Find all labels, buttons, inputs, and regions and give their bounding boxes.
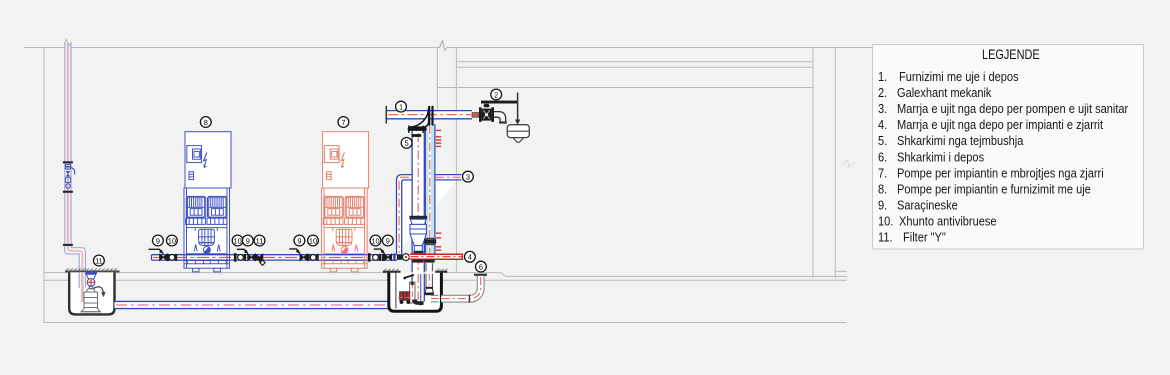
svg-text:8: 8 <box>204 118 208 127</box>
svg-text:Filter "Y": Filter "Y" <box>903 230 946 245</box>
flange on cyan pipe <box>424 238 436 244</box>
svg-text:Marrja e ujit nga depo per pom: Marrja e ujit nga depo per pompen e ujit… <box>897 101 1128 116</box>
left wall <box>43 48 45 323</box>
drain pipe from pit to outlet 6 <box>436 274 487 303</box>
flange pair on pipe 1 <box>428 106 434 126</box>
Y filter 11 (right of pump 8) <box>256 254 266 265</box>
svg-text:Marrja e ujit nga depo per imp: Marrja e ujit nga depo per impianti e zj… <box>897 117 1104 132</box>
svg-text:10: 10 <box>371 236 379 245</box>
svg-text:9.: 9. <box>878 198 887 213</box>
svg-text:10: 10 <box>309 236 317 245</box>
label 9 <box>153 235 164 246</box>
red pipe 4 (fire suction) <box>410 254 463 260</box>
svg-text:2: 2 <box>494 90 498 99</box>
cyan pipe (tank fill drop) <box>425 124 435 260</box>
supply pipe elbow to tank 11 <box>65 248 86 304</box>
drain pump in pit <box>398 275 415 304</box>
valve 9 (left of pump 7) <box>289 249 307 261</box>
LEGEND <box>873 45 1144 250</box>
svg-text:Xhunto antivibruese: Xhunto antivibruese <box>899 214 997 229</box>
svg-text:7: 7 <box>341 118 345 127</box>
svg-text:Shkarkimi nga tejmbushja: Shkarkimi nga tejmbushja <box>897 133 1024 148</box>
svg-text:9: 9 <box>246 236 250 245</box>
svg-text:Furnizimi me uje i depos: Furnizimi me uje i depos <box>899 69 1019 84</box>
vessel on drop pipe <box>409 216 427 254</box>
svg-text:8.: 8. <box>878 182 887 197</box>
svg-text:7.: 7. <box>878 165 887 180</box>
manifold junction elbow <box>393 253 402 261</box>
label 5 <box>401 138 412 149</box>
tank 11 body <box>69 272 114 314</box>
valve 9 (left of pump 8) <box>149 249 168 260</box>
svg-text:4.: 4. <box>878 117 887 132</box>
labels 7 8 <box>200 117 211 128</box>
overflow drop pipe (white, to pit) <box>412 131 424 302</box>
valve 9 (right of pump 7) <box>374 249 392 261</box>
svg-text:11: 11 <box>95 256 103 265</box>
overflow drop pipe inside pit <box>412 274 424 302</box>
float valve in tank 11 <box>85 272 97 289</box>
overflow elbow 5 (black) <box>408 108 429 137</box>
tank left wall <box>455 48 457 272</box>
float valve 2 (galexhant) <box>472 101 518 124</box>
svg-text:6: 6 <box>479 262 483 271</box>
svg-text:10: 10 <box>168 236 176 245</box>
xhunto 10 (right of pump 7) <box>373 254 384 261</box>
xhunto 10 (right of pump 8) <box>238 254 246 261</box>
svg-text:3.: 3. <box>878 101 887 116</box>
float rod and vessel <box>507 93 529 143</box>
svg-text:11.: 11. <box>878 230 893 245</box>
ceiling break symbol <box>440 41 448 51</box>
label 2 <box>491 89 502 100</box>
label 4 <box>465 251 476 262</box>
xhunto at junction <box>403 254 410 261</box>
tank 11 rim hatch <box>65 268 120 272</box>
bottom line <box>44 322 847 324</box>
wall near tank <box>436 48 438 110</box>
short ledge <box>835 270 847 272</box>
long transfer pipe tank11 to pit <box>115 301 391 308</box>
supply drop inside tank 11 <box>79 272 85 302</box>
svg-text:6.: 6. <box>878 149 887 164</box>
label 1 <box>396 101 407 112</box>
svg-text:Galexhant mekanik: Galexhant mekanik <box>897 85 992 100</box>
floor lines <box>44 273 847 277</box>
svg-text:LEGJENDE: LEGJENDE <box>982 47 1040 63</box>
pump in tank 11 <box>81 288 102 311</box>
STRUCTURE <box>24 41 872 323</box>
pipe 3 horizontal (sanitary suction from tank) <box>397 175 462 255</box>
pit rim <box>383 269 448 273</box>
svg-text:10: 10 <box>233 236 241 245</box>
flanges below red pipe <box>412 260 434 263</box>
label 3 <box>463 171 474 182</box>
red centerline ticks (lower) <box>436 232 441 251</box>
svg-text:5: 5 <box>405 139 409 148</box>
label 11 (tank) <box>94 255 105 266</box>
fire suction drop inside pit with foot valve <box>424 274 434 295</box>
fire drop pipe into pit <box>426 263 432 271</box>
svg-text:5.: 5. <box>878 133 887 148</box>
label 6 <box>476 261 487 272</box>
svg-text:Pompe per impiantin e furnizim: Pompe per impiantin e furnizimit me uje <box>897 182 1091 197</box>
svg-text:1.: 1. <box>878 69 887 84</box>
svg-text:1: 1 <box>399 102 403 111</box>
drain pipe segment inside pit <box>431 295 439 301</box>
svg-text:3: 3 <box>466 172 470 181</box>
label 10 <box>167 235 178 246</box>
pump unit 8 (blue cabinet) <box>184 132 231 272</box>
circulation arrow at tank 11 pump <box>94 287 106 297</box>
svg-text:Pompe per impiantin e mbrojtje: Pompe per impiantin e mbrojtjes nga zjar… <box>897 165 1104 180</box>
xhunto 10 (left of pump 8) <box>167 254 177 261</box>
pump unit 7 (red cabinet) <box>322 132 369 272</box>
supply pipe vertical (city inlet, left) <box>64 40 72 249</box>
valve 9 (right of pump 8) <box>237 249 255 260</box>
svg-text:2.: 2. <box>878 85 887 100</box>
svg-text:10.: 10. <box>878 214 893 229</box>
pit (collection sump) <box>389 272 442 311</box>
flange at pump 7 outlet <box>368 253 371 261</box>
pipe 1 (tank filling) <box>386 106 472 124</box>
drop pipe foot elbow in pit <box>413 300 424 306</box>
red centerline ticks (upper) <box>436 130 441 148</box>
suction manifold pipe <box>152 255 398 260</box>
valve assembly on supply pipe <box>63 161 75 246</box>
svg-text:Shkarkimi i depos: Shkarkimi i depos <box>897 149 984 164</box>
svg-text:4: 4 <box>468 253 472 262</box>
right walls <box>813 48 835 279</box>
svg-text:Saraçineske: Saraçineske <box>897 198 958 213</box>
flange at pump 8 outlet <box>234 253 237 261</box>
svg-text:11: 11 <box>256 236 264 245</box>
pump cabinet edges over pipe <box>184 254 367 261</box>
ceiling line <box>24 47 872 49</box>
svg-text:9: 9 <box>297 236 301 245</box>
svg-text:9: 9 <box>386 236 390 245</box>
svg-text:9: 9 <box>156 236 160 245</box>
labels 10 9 11 <box>232 235 243 246</box>
faint break symbol right <box>842 160 855 167</box>
beam lines <box>437 62 813 88</box>
xhunto 10 (left of pump 7) <box>308 254 319 261</box>
